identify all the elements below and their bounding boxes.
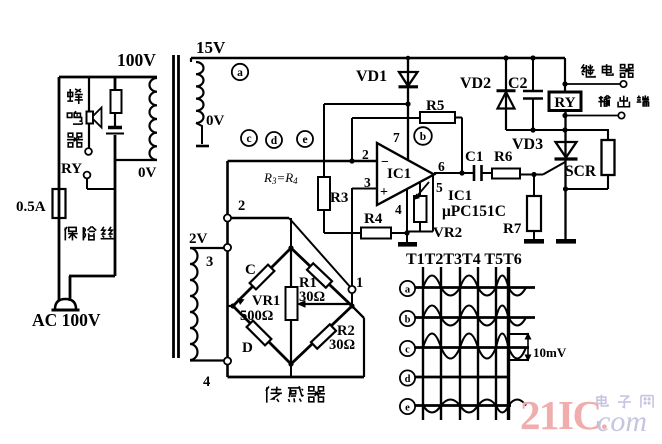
svg-text:D: D — [242, 340, 253, 356]
svg-text:0.5A: 0.5A — [16, 199, 46, 215]
svg-text:+: + — [380, 185, 388, 200]
svg-text:e: e — [405, 402, 410, 413]
svg-text:AC 100V: AC 100V — [32, 310, 101, 330]
svg-text:6: 6 — [438, 159, 445, 174]
svg-text:com: com — [597, 405, 647, 438]
svg-text:100V: 100V — [117, 50, 156, 70]
svg-text:0V: 0V — [138, 165, 157, 181]
svg-text:−: − — [381, 155, 389, 170]
svg-text:3: 3 — [206, 254, 213, 270]
svg-text:d: d — [405, 374, 411, 385]
svg-text:4: 4 — [203, 374, 210, 390]
svg-text:c: c — [405, 344, 410, 355]
svg-text:0V: 0V — [206, 113, 225, 129]
svg-text:b: b — [405, 314, 411, 325]
svg-text:3: 3 — [364, 175, 371, 190]
svg-text:VD3: VD3 — [512, 136, 543, 153]
svg-text:VD2: VD2 — [460, 75, 491, 92]
svg-text:C: C — [245, 262, 256, 278]
svg-text:C2: C2 — [508, 75, 528, 92]
svg-text:7: 7 — [393, 130, 400, 145]
svg-text:a: a — [237, 67, 243, 79]
svg-text:RY: RY — [61, 161, 82, 177]
svg-text:1: 1 — [356, 275, 363, 291]
svg-text:RY: RY — [554, 95, 575, 111]
svg-text:15V: 15V — [196, 38, 226, 57]
svg-text:2: 2 — [238, 198, 245, 214]
svg-text:30Ω: 30Ω — [329, 337, 355, 353]
svg-text:R5: R5 — [426, 98, 444, 114]
svg-text:2: 2 — [362, 147, 369, 162]
svg-text:c: c — [246, 133, 251, 145]
svg-text:4: 4 — [395, 202, 402, 217]
svg-text:d: d — [271, 135, 278, 147]
svg-text:VR1: VR1 — [252, 293, 280, 309]
svg-text:IC1: IC1 — [387, 166, 411, 182]
svg-text:30Ω: 30Ω — [299, 289, 325, 305]
svg-text:2V: 2V — [189, 231, 208, 247]
svg-text:R3: R3 — [330, 190, 348, 206]
svg-text:R4: R4 — [364, 211, 383, 227]
svg-text:T1T2T3T4 T5T6: T1T2T3T4 T5T6 — [406, 251, 522, 268]
svg-text:10mV: 10mV — [533, 345, 567, 360]
svg-text:e: e — [302, 134, 307, 146]
svg-text:μPC151C: μPC151C — [442, 203, 506, 220]
svg-text:a: a — [405, 284, 411, 295]
svg-text:VR2: VR2 — [433, 225, 462, 241]
svg-text:R7: R7 — [503, 221, 522, 237]
svg-text:5: 5 — [436, 180, 443, 195]
svg-text:R6: R6 — [494, 149, 513, 165]
svg-text:IC1: IC1 — [448, 188, 472, 204]
svg-text:SCR: SCR — [565, 163, 597, 180]
svg-text:R3=R4: R3=R4 — [263, 170, 298, 186]
svg-text:500Ω: 500Ω — [240, 308, 273, 324]
svg-text:21IC.: 21IC. — [520, 392, 608, 438]
svg-text:VD1: VD1 — [356, 68, 387, 85]
svg-text:C1: C1 — [465, 149, 483, 165]
svg-text:b: b — [420, 131, 426, 143]
